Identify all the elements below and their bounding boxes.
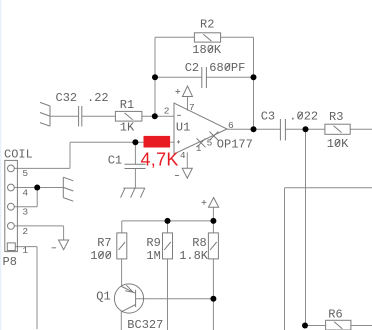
svg-text:BC327: BC327 <box>127 318 163 330</box>
capacitor C32 <box>79 106 82 126</box>
wire Q1 collector down <box>120 311 122 330</box>
svg-text:P8: P8 <box>3 255 17 269</box>
transistor Q1 <box>114 284 143 313</box>
wire right vertical R2/C2 to output node <box>253 37 255 129</box>
wire right loop vertical <box>284 188 286 330</box>
wire op-amp pin4 to -V <box>186 152 188 168</box>
wire R7 top stub <box>121 221 123 233</box>
svg-text:U1: U1 <box>176 121 190 135</box>
wire coil pin5 horizontal <box>14 167 70 169</box>
+V arrow above op-amp <box>175 86 192 97</box>
wire supply rail horizontal <box>122 220 214 222</box>
wire C2 left <box>155 76 202 78</box>
svg-text:OP177: OP177 <box>217 137 253 151</box>
ground near coil pin4 (right-pointing earth) <box>63 177 73 201</box>
capacitor C1 <box>125 164 146 168</box>
wire Q1 base to R8 node <box>136 298 214 300</box>
resistor R2 <box>194 33 220 42</box>
junction node C1/red <box>132 139 138 145</box>
svg-text:1.8K: 1.8K <box>179 249 209 263</box>
wire coil pin2 down to -V <box>63 226 65 240</box>
svg-text:4: 4 <box>22 187 28 198</box>
left window edge stripe <box>0 0 1 330</box>
junction coil pin4 node <box>34 185 40 191</box>
svg-text:1: 1 <box>196 143 202 154</box>
wire R7 bottom to Q1 emitter <box>121 259 123 287</box>
svg-text:5: 5 <box>22 168 28 179</box>
resistor R1 <box>115 111 141 121</box>
svg-text:R8: R8 <box>192 236 206 250</box>
svg-text:7: 7 <box>189 102 195 113</box>
svg-text:6: 6 <box>228 120 234 131</box>
wire coil pin1 horizontal <box>15 246 37 248</box>
svg-text:.022: .022 <box>289 110 318 124</box>
svg-text:C32: C32 <box>56 91 78 105</box>
ground below C1 (earth) <box>121 188 145 198</box>
wire node B vertical up to R2 <box>154 37 156 116</box>
wire red rect to op-amp pin 3 <box>170 141 174 143</box>
svg-text:1M: 1M <box>146 249 160 263</box>
-V arrow below op-amp <box>175 168 192 178</box>
resistor R7 <box>117 233 127 259</box>
wire top to R2 left <box>155 36 194 38</box>
resistor R3 <box>325 124 350 134</box>
junction output node <box>251 126 257 132</box>
wire R9 top stub <box>167 221 169 233</box>
wire C2 right <box>206 76 253 78</box>
svg-text:R3: R3 <box>329 110 343 124</box>
svg-text:R1: R1 <box>120 98 134 112</box>
wire C1 node down to C1 <box>134 142 136 164</box>
wire coil pin4 to ground <box>14 187 63 189</box>
svg-text:2: 2 <box>164 106 170 117</box>
svg-text:1: 1 <box>22 245 28 256</box>
wire C32 to R1 <box>82 115 116 117</box>
wire coil pin1 vertical down <box>36 247 38 329</box>
wire to C1 node <box>70 141 144 143</box>
junction node C2 left <box>152 74 158 80</box>
op-amp pin1 no-connect X <box>197 138 206 147</box>
svg-text:C2: C2 <box>185 61 199 75</box>
resistor R8 <box>208 233 218 259</box>
wire coil pin3 <box>14 206 37 208</box>
svg-text:R6: R6 <box>328 308 342 322</box>
junction node C2 right <box>251 74 257 80</box>
connector P8 body <box>5 160 18 251</box>
svg-text:R9: R9 <box>146 236 160 250</box>
slashed zero in 180K <box>208 46 213 52</box>
junction R8 top <box>210 218 216 224</box>
svg-text:2: 2 <box>22 226 28 237</box>
wire op-amp pin7 to +V <box>187 97 189 111</box>
red highlight rectangle R4 <box>144 136 171 148</box>
junction R9 top <box>165 218 171 224</box>
wire R2 right to right vertical <box>221 36 254 38</box>
svg-text:R2: R2 <box>200 18 214 32</box>
svg-text:COIL: COIL <box>4 148 33 162</box>
svg-text:1K: 1K <box>120 121 135 135</box>
-V arrow at coil pin2 <box>52 240 69 250</box>
wire C3 to R3 <box>285 128 325 130</box>
op-amp U1 triangle <box>174 103 227 154</box>
wire R6 node to R6 <box>305 325 326 327</box>
wire R3 to right edge <box>350 128 372 130</box>
wire right loop horizontal <box>285 187 372 189</box>
wire R8 bottom <box>212 259 214 330</box>
svg-text:4,7K: 4,7K <box>141 150 179 170</box>
slashed zero in .022 <box>298 112 303 118</box>
slashed zero in 10K <box>335 140 340 146</box>
wire C1 to ground <box>134 169 136 189</box>
+V arrow above R8 <box>202 198 219 208</box>
junction R6 left node <box>302 323 308 329</box>
svg-text:5: 5 <box>207 137 213 148</box>
ground near C32 (left-pointing earth) <box>40 102 50 126</box>
resistor R6 <box>326 320 351 330</box>
svg-text:C3: C3 <box>261 110 275 124</box>
slashed zeros in 100 <box>99 252 104 258</box>
wire R1 to op-amp pin 2 <box>142 115 174 117</box>
svg-text:4: 4 <box>180 150 186 161</box>
resistor R9 <box>163 233 173 259</box>
wire R9 bottom <box>167 259 169 330</box>
op-amp pin5 no-connect X <box>209 132 218 141</box>
wire R8 top stub <box>212 207 214 233</box>
svg-text:Q1: Q1 <box>96 290 110 304</box>
wire op-amp output to C3 <box>227 128 280 130</box>
wire coil pin5 vertical up <box>69 142 71 168</box>
svg-text:180K: 180K <box>192 43 222 57</box>
wire pin4 node down to pin3 <box>36 188 38 207</box>
wire ground to C32 <box>50 115 79 117</box>
wire node C vertical down to R6 node <box>305 129 307 325</box>
junction node after C3 <box>303 126 309 132</box>
svg-text:C1: C1 <box>108 154 122 168</box>
wire R6 right to edge <box>351 325 372 327</box>
svg-text:.22: .22 <box>87 91 109 105</box>
svg-text:R7: R7 <box>97 236 111 250</box>
svg-text:100: 100 <box>90 249 112 263</box>
slashed zero in 680PF <box>225 64 230 70</box>
svg-text:10K: 10K <box>327 137 349 151</box>
junction node B R1/pin2 <box>152 113 158 119</box>
wire coil pin2 horizontal <box>14 225 63 227</box>
junction Q1 base / R8 bottom <box>210 296 216 302</box>
svg-text:3: 3 <box>22 207 28 218</box>
capacitor C2 <box>202 67 207 88</box>
capacitor C3 <box>280 119 285 141</box>
